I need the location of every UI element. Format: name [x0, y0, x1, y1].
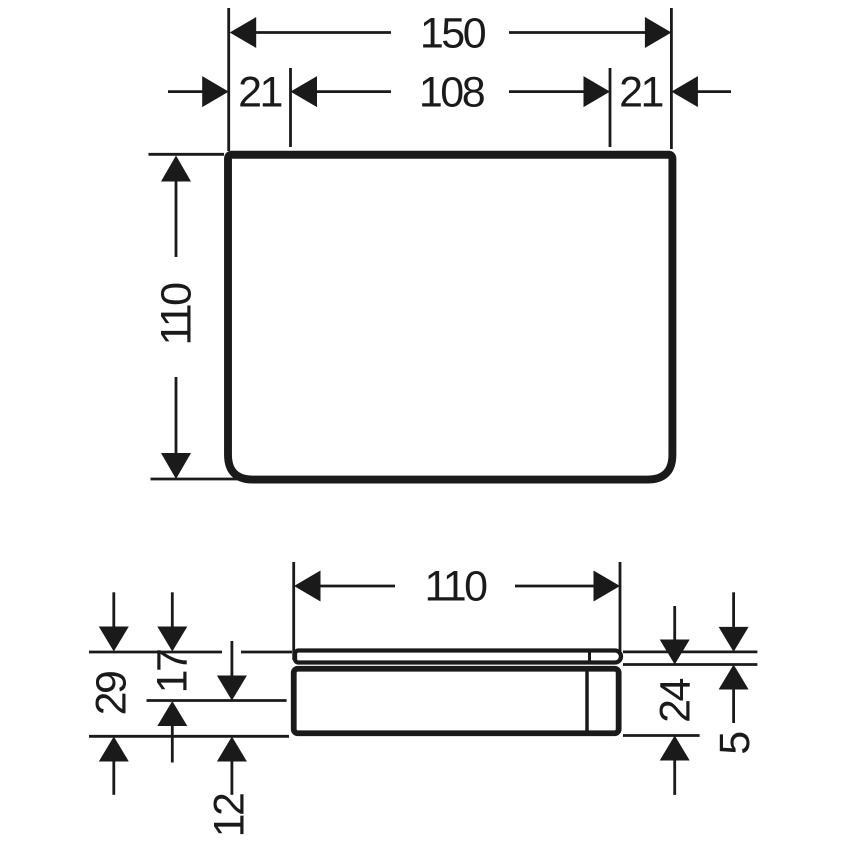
- svg-text:12: 12: [206, 794, 254, 837]
- dimension 110 bottom line: [294, 571, 620, 602]
- extension line bottom of 110 (y=479): [151, 478, 241, 481]
- extension line y=700.5: [147, 699, 287, 702]
- extension line y=651.9 right: [623, 651, 757, 654]
- extension line y=652 left segment a: [89, 651, 222, 654]
- svg-text:110: 110: [153, 283, 201, 346]
- extension line y=664.5 right: [623, 663, 757, 666]
- svg-text:17: 17: [149, 650, 197, 693]
- shelf plate profile: [295, 651, 621, 663]
- dimension 5: [719, 592, 749, 723]
- svg-text:21: 21: [619, 69, 662, 117]
- extension line y=652 left segment b: [241, 651, 292, 654]
- dimension 12: [217, 641, 247, 795]
- extension line inner left (x=290.5): [289, 68, 292, 147]
- svg-text:150: 150: [420, 10, 486, 58]
- svg-text:24: 24: [652, 679, 700, 723]
- body inner division line: [585, 668, 589, 734]
- svg-text:110: 110: [424, 563, 487, 611]
- plate inner division line: [588, 653, 591, 661]
- dimension 21-108-21 line: [168, 76, 731, 107]
- top view outline: [228, 155, 672, 480]
- extension line bottom-110 right (x=620): [619, 562, 622, 653]
- dimension 24: [660, 606, 690, 795]
- svg-text:5: 5: [711, 732, 759, 755]
- extension line y=736.3 left: [89, 735, 289, 738]
- extension line top of 110 (y=154.3): [149, 153, 225, 156]
- dimension 29: [99, 592, 129, 795]
- dimension 110 vertical line: [161, 156, 191, 480]
- shelf body profile: [294, 669, 619, 734]
- extension line y=735.5 right: [623, 734, 700, 737]
- dimension 150 line: [230, 17, 672, 48]
- extension line bottom-110 left (x=293.7): [292, 562, 295, 660]
- dimension 17: [157, 592, 187, 762]
- svg-text:29: 29: [88, 672, 136, 715]
- extension line left outer (x=228.7): [227, 8, 230, 151]
- extension line right outer (x=671.4): [670, 8, 673, 149]
- svg-text:108: 108: [419, 69, 485, 117]
- extension line inner right (x=610): [609, 68, 612, 147]
- svg-text:21: 21: [238, 69, 281, 117]
